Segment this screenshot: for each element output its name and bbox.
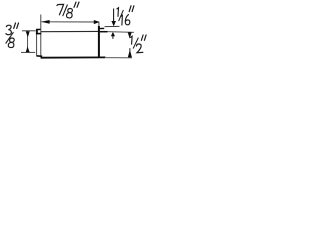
label 3/8" [6,23,19,48]
node 3/8 bottom arrow [26,46,30,52]
wire 3/8 dimension line [27,31,29,52]
wire right edge [98,22,100,27]
wire 1/2 bottom arrow tail [129,48,131,51]
node bead bottom dash [36,33,41,35]
label 1/2" [131,35,147,53]
wire 1/16 upper arrow tail [113,9,115,22]
wire extension bottom right [106,57,132,59]
node bead foot [36,55,42,58]
wire extension line upper 1/16 [105,25,120,27]
node tab bottom dash [99,31,108,33]
node tab top dash [99,27,104,29]
node bead top dash [36,28,40,30]
node 7/8 right arrow [94,20,100,24]
node 1/2 bottom arrow [128,50,132,58]
node 3/8 top arrow [26,31,30,37]
wire extension line lower 1/16 [108,31,135,34]
node 1/16 upper arrow head [111,21,116,26]
node 1/2 top arrow [128,32,132,38]
wire 3/8 bottom stub [21,51,35,53]
node 1/16 lower arrow head [111,32,115,36]
wire bottom edge [41,56,106,58]
label 7/8" [57,2,79,18]
wire 7/8 dimension line [42,21,100,23]
node 7/8 left arrow [41,20,49,24]
wire top edge [41,30,99,32]
node bead left vertical [36,29,38,34]
wire left extension / body left vertical line [40,15,42,58]
wire 1/16 lower arrow tail [112,36,114,39]
label 1/16" [117,6,134,25]
wire 3/8 top stub [22,30,36,32]
